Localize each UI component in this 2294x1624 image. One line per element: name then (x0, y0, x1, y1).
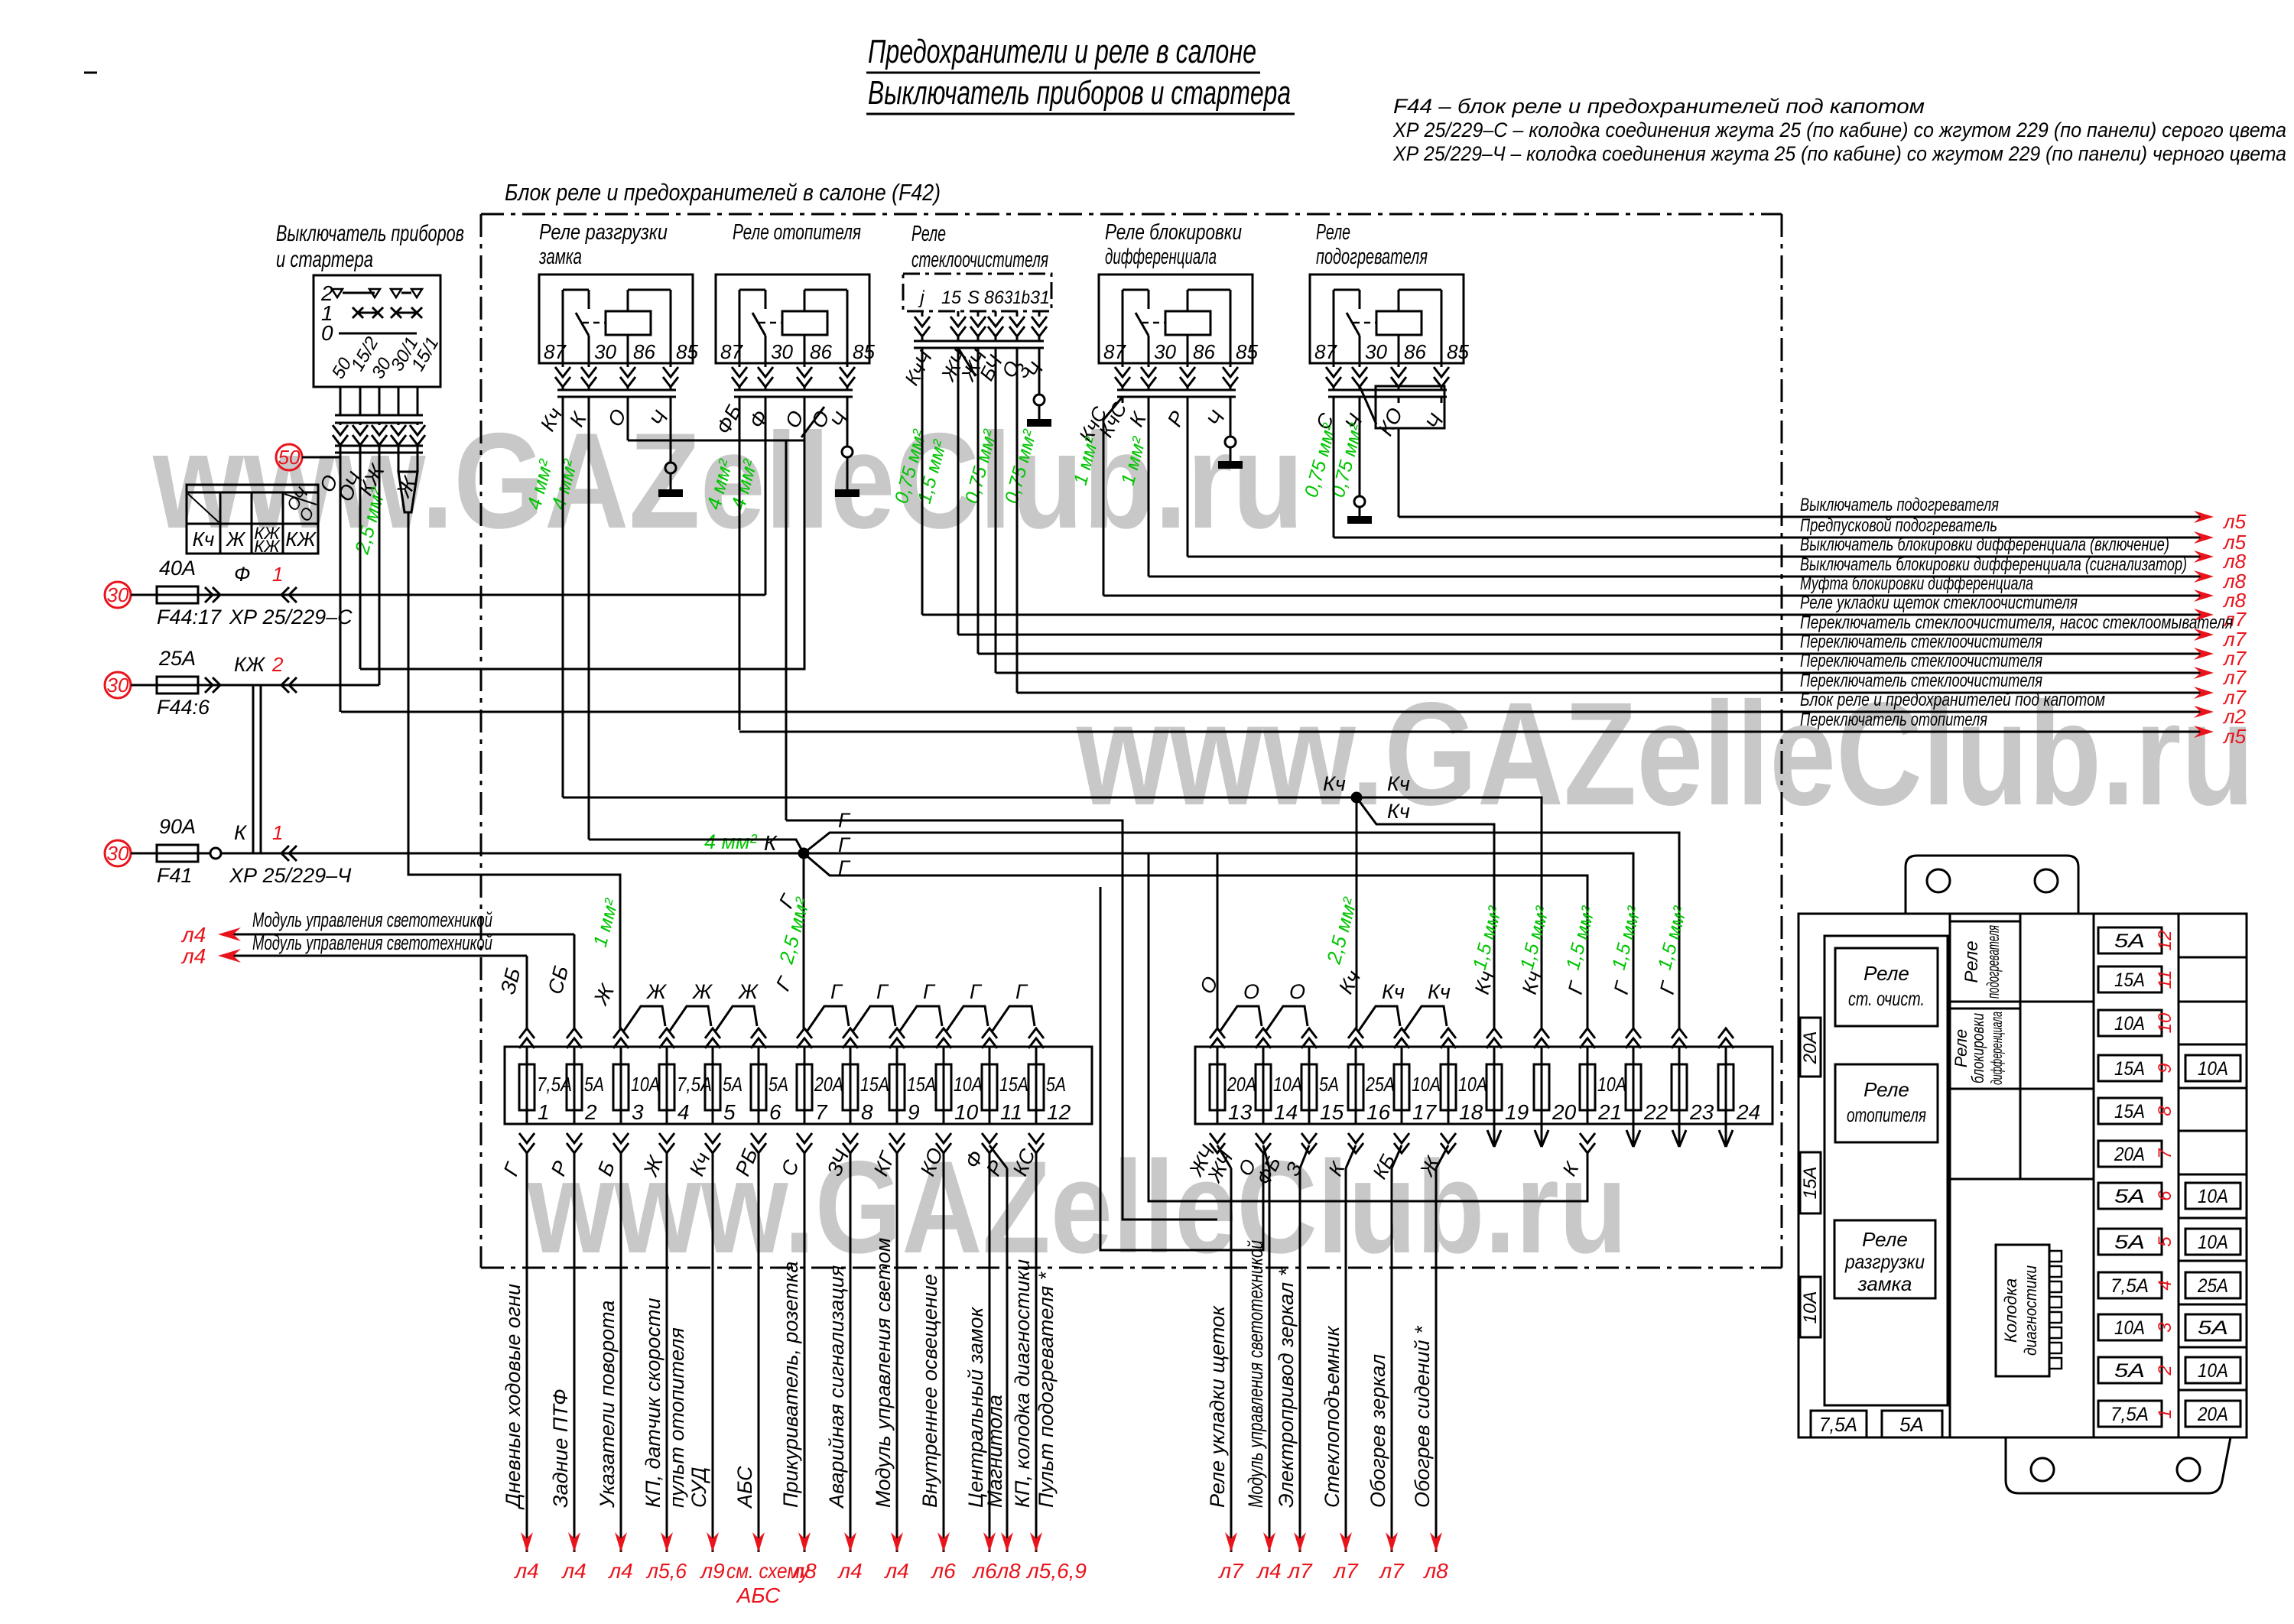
svg-text:л5: л5 (2222, 725, 2247, 748)
node 50 (red circle) (276, 444, 302, 470)
svg-text:5А: 5А (2198, 1317, 2228, 1339)
svg-text:л4: л4 (561, 1559, 586, 1583)
svg-text:Переключатель стеклоочистителя: Переключатель стеклоочистителя (1800, 671, 2042, 691)
fuse F5 (5А) (712, 1047, 714, 1124)
svg-text:10А: 10А (954, 1073, 983, 1096)
svg-text:10А: 10А (1800, 1291, 1821, 1324)
side fuse 15A (1800, 1152, 1821, 1213)
circuit drop: Модуль управления светом (896, 1153, 898, 1552)
fuse F12 (5А) (1035, 1047, 1038, 1124)
svg-text:85: 85 (1236, 340, 1258, 363)
fuse F11 (15А) (989, 1047, 991, 1124)
K2 Ф wire to 40A feed (765, 397, 767, 595)
svg-text:АБС: АБС (733, 1466, 756, 1509)
svg-text:15А: 15А (2114, 1101, 2145, 1122)
svg-text:F44 – блок реле и предохраните: F44 – блок реле и предохранителей под ка… (1393, 95, 1925, 118)
svg-text:Кч: Кч (1387, 800, 1410, 823)
svg-text:л9: л9 (699, 1559, 724, 1583)
svg-text:86: 86 (1193, 340, 1215, 363)
svg-text:Стеклоподъемник: Стеклоподъемник (1321, 1325, 1344, 1508)
fuse F2 (5А) (573, 1047, 576, 1124)
svg-text:Г: Г (838, 856, 851, 879)
physical box: outer body (1798, 914, 2247, 1437)
svg-text:87: 87 (720, 340, 743, 363)
svg-text:л7: л7 (1286, 1559, 1313, 1583)
destination line: Переключатель стеклоочистителя (1017, 692, 2201, 694)
svg-text:31: 31 (1030, 287, 1050, 308)
svg-text:30: 30 (107, 583, 129, 606)
circuit drop: Реле укладки щеток (1217, 1145, 1231, 1168)
svg-text:Внутреннее освещение: Внутреннее освещение (918, 1274, 941, 1508)
K2 pin85 Ч to ground (846, 397, 849, 447)
destination line: Блок реле и предохранителей под капотом (341, 711, 2201, 713)
svg-text:Реле блокировки: Реле блокировки (1105, 220, 1242, 245)
svg-text:1: 1 (272, 821, 283, 844)
svg-text:л6: л6 (971, 1559, 997, 1583)
svg-text:КЖ: КЖ (285, 528, 317, 551)
svg-text:Обогрев сидений *: Обогрев сидений * (1411, 1325, 1434, 1508)
svg-text:Кч: Кч (1382, 980, 1405, 1003)
svg-text:Модуль управления светом: Модуль управления светом (872, 1238, 895, 1508)
svg-text:87: 87 (544, 340, 567, 363)
supply feed 25А (F44:6) (105, 672, 131, 698)
svg-text:Кч: Кч (1323, 772, 1346, 795)
svg-text:10А: 10А (631, 1073, 660, 1096)
destination line: Выключатель блокировки дифференциала (включение) (1188, 556, 2201, 558)
wire К jog from K1 pin 30 (589, 840, 804, 853)
K4 87 КчС wire jog and down (1103, 397, 1123, 596)
svg-text:7,5А: 7,5А (2110, 1404, 2149, 1425)
wire Ф from 40A feed to heater relay (261, 594, 765, 596)
svg-text:Ж: Ж (691, 980, 713, 1003)
svg-text:Блок реле и предохранителей по: Блок реле и предохранителей под капотом (1800, 690, 2105, 710)
svg-text:10А: 10А (1597, 1073, 1626, 1096)
svg-text:5А: 5А (723, 1073, 742, 1096)
relay area rect (1824, 936, 1948, 1405)
svg-text:Модуль управления светотехнико: Модуль управления светотехникой (252, 931, 492, 954)
jumper hops 3-6 (Ж) (624, 1006, 665, 1031)
circuit drop: Электропривод зеркал * (1300, 1145, 1309, 1168)
svg-text:Переключатель стеклоочистителя: Переключатель стеклоочистителя (1800, 651, 2042, 671)
junction wires КЖ down (252, 685, 255, 853)
svg-text:Г: Г (970, 980, 983, 1003)
svg-text:Г: Г (923, 980, 936, 1003)
fuse 21 К wire down-left-up (1149, 853, 1587, 1201)
svg-text:22: 22 (1643, 1100, 1669, 1124)
fuse F15 (1308, 1047, 1311, 1124)
svg-text:Реле укладки щеток: Реле укладки щеток (1206, 1305, 1229, 1508)
K1 pin87 Кч wire down (562, 397, 564, 797)
svg-text:л4: л4 (180, 944, 206, 968)
Кч drop to fuse 16 (1356, 797, 1358, 1028)
svg-text:1: 1 (538, 1100, 550, 1124)
svg-text:Обогрев зеркал: Обогрев зеркал (1366, 1354, 1389, 1508)
side fuse 10A (1800, 1277, 1821, 1337)
box fuse #5 (5А) (2098, 1229, 2162, 1255)
svg-text:К: К (764, 831, 778, 855)
svg-text:стеклоочистителя: стеклоочистителя (911, 248, 1048, 272)
circuit drop: Модуль управления светотехникой (1263, 1145, 1269, 1168)
svg-text:9: 9 (908, 1100, 920, 1124)
ground (K2) (835, 489, 859, 497)
relay: preheater (rotated) (1950, 921, 2020, 1002)
fuse 14 О side wire (1100, 887, 1263, 1250)
svg-text:85: 85 (676, 340, 698, 363)
K2 О wires joint (804, 397, 806, 440)
svg-text:12: 12 (1047, 1100, 1071, 1124)
svg-text:F44:17: F44:17 (157, 606, 222, 628)
supply feed 40А (F44:17) (105, 582, 131, 608)
circuit drop: СУД (712, 1153, 714, 1552)
box fuse right col (5А) (2185, 1314, 2240, 1340)
svg-text:20А: 20А (814, 1073, 843, 1096)
svg-text:Ж: Ж (645, 980, 668, 1003)
box fuse #9 (15А) (2098, 1055, 2162, 1081)
svg-text:15А: 15А (907, 1073, 936, 1096)
supply feed 90А (F41) (105, 840, 131, 866)
circuit drop: Стеклоподъемник (1346, 1145, 1356, 1168)
svg-text:10А: 10А (1458, 1073, 1487, 1096)
relay: lock unloading (1834, 1220, 1935, 1298)
circuit drop: Аварийная сигнализация (850, 1153, 852, 1552)
combined О wire down (785, 440, 788, 820)
ground (K5) (1347, 516, 1372, 524)
svg-text:5А: 5А (768, 1073, 788, 1096)
circuit drop: КП, датчик скорости (666, 1153, 668, 1552)
switch wire 3 (КЖ) from 25A feed (379, 453, 381, 685)
svg-text:пульт отопителя: пульт отопителя (665, 1327, 688, 1508)
destination line: Выключатель подогревателя (1399, 516, 2201, 518)
svg-text:5А: 5А (1046, 1073, 1066, 1096)
svg-text:19: 19 (1505, 1100, 1529, 1124)
svg-text:15: 15 (1320, 1100, 1344, 1124)
circuit drop: Дневные ходовые огни (526, 1153, 528, 1552)
svg-text:15А: 15А (2114, 970, 2145, 991)
svg-text:дифференциала: дифференциала (1105, 245, 1217, 269)
svg-text:25А: 25А (2197, 1275, 2228, 1297)
svg-text:л5,6,9: л5,6,9 (1025, 1559, 1087, 1583)
circuit drop: КП, колодка диагностики (1035, 1153, 1038, 1552)
right fuse column cells (2179, 957, 2247, 959)
box fuse right col (10А) (2185, 1229, 2240, 1255)
fuse F19 (1493, 1047, 1496, 1124)
svg-text:5А: 5А (2114, 1186, 2145, 1207)
svg-text:3: 3 (2155, 1322, 2175, 1333)
svg-text:Модуль управления светотехнико: Модуль управления светотехникой (1244, 1240, 1267, 1508)
Кч line from K1 pin 87 (563, 797, 1542, 1028)
svg-text:Г: Г (830, 980, 843, 1003)
svg-text:40А: 40А (159, 557, 196, 580)
svg-text:л5: л5 (2222, 510, 2247, 533)
svg-text:15А: 15А (999, 1073, 1028, 1096)
connector table (187, 485, 318, 492)
fuse F17 (1401, 1047, 1403, 1124)
svg-text:11: 11 (2155, 970, 2175, 989)
svg-text:86: 86 (810, 340, 832, 363)
fuse F21 (1587, 1047, 1589, 1124)
fuse F8 (15А) (850, 1047, 852, 1124)
K2 ФБ wire down to heater switch line (739, 397, 741, 730)
ground (K3) (1027, 419, 1051, 427)
box fuse right col (25А) (2185, 1272, 2240, 1298)
box fuse #10 (10А) (2098, 1010, 2162, 1036)
svg-text:л7: л7 (1378, 1559, 1405, 1583)
svg-text:15А: 15А (2114, 1058, 2145, 1080)
svg-text:Выключатель блокировки диффере: Выключатель блокировки дифференциала (вк… (1800, 534, 2169, 555)
fuse F7 (20А) (804, 1047, 806, 1124)
fuse row 1 box (505, 1047, 1092, 1124)
svg-text:2: 2 (2155, 1365, 2175, 1376)
svg-text:Реле отопителя: Реле отопителя (733, 220, 861, 245)
K4 30 К wire down (1148, 397, 1150, 577)
Г fan upper (804, 833, 1679, 1028)
svg-text:К: К (234, 821, 248, 844)
svg-text:20А: 20А (2197, 1404, 2228, 1425)
svg-text:КП, колодка диагностики: КП, колодка диагностики (1011, 1259, 1034, 1508)
svg-text:л7: л7 (1332, 1559, 1359, 1583)
svg-text:Магнитола: Магнитола (983, 1395, 1006, 1508)
svg-text:87: 87 (1314, 340, 1337, 363)
svg-text:О: О (1243, 980, 1259, 1003)
destination line: Реле укладки щеток стеклоочистителя (922, 614, 2201, 616)
svg-text:12: 12 (2155, 931, 2175, 951)
svg-text:замка: замка (1857, 1272, 1912, 1295)
svg-text:Кч: Кч (1387, 772, 1410, 795)
K3 pin 31 Ч to ground (1038, 348, 1041, 395)
svg-text:Блок реле и предохранителей в: Блок реле и предохранителей в салоне (F4… (505, 179, 941, 206)
svg-text:Муфта блокировки дифференциала: Муфта блокировки дифференциала (1800, 573, 2033, 594)
relay K3 connector box (dash-dot) (903, 274, 1051, 311)
svg-text:замка: замка (538, 245, 582, 269)
switch wire 2 (ОЧ) down, right to heater relay (359, 453, 362, 669)
circuit drop: АБС (758, 1153, 760, 1552)
svg-text:30: 30 (1365, 340, 1387, 363)
svg-text:16: 16 (1366, 1100, 1391, 1124)
bottom fuses 7,5A / 5A (1811, 1411, 1867, 1437)
svg-text:л8: л8 (1422, 1559, 1448, 1583)
circuit drop: Внутреннее освещение (943, 1153, 945, 1552)
svg-text:Реле: Реле (1863, 1078, 1909, 1101)
fuse column separator (2178, 914, 2180, 1437)
svg-text:86: 86 (633, 340, 655, 363)
svg-text:Кч: Кч (1428, 980, 1451, 1003)
svg-text:разгрузки: разгрузки (1844, 1250, 1925, 1273)
circuit drop: Обогрев зеркал (1392, 1145, 1402, 1168)
svg-text:8: 8 (2155, 1106, 2175, 1116)
circuit drop: Задние ПТФ (573, 1153, 576, 1552)
svg-text:Модуль управления светотехнико: Модуль управления светотехникой (252, 908, 492, 931)
svg-text:АБС: АБС (736, 1583, 781, 1607)
svg-text:Электропривод зеркал *: Электропривод зеркал * (1275, 1267, 1298, 1508)
svg-text:7,5А: 7,5А (1819, 1413, 1857, 1436)
svg-text:20А: 20А (1227, 1073, 1256, 1096)
svg-text:10А: 10А (2114, 1317, 2145, 1339)
svg-text:Ф: Ф (234, 563, 250, 586)
relay: heater (1835, 1064, 1938, 1142)
svg-text:20А: 20А (2114, 1144, 2145, 1165)
svg-text:Предохранители и реле в са: Предохранители и реле в салоне (868, 33, 1256, 70)
svg-text:5: 5 (2155, 1236, 2175, 1247)
svg-text:6: 6 (769, 1100, 781, 1124)
svg-text:ХР 25/229–Ч – колодка соединен: ХР 25/229–Ч – колодка соединения жгута 2… (1392, 142, 2286, 165)
svg-text:Переключатель отопителя: Переключатель отопителя (1800, 710, 1987, 730)
svg-text:Дневные ходовые огни: Дневные ходовые огни (502, 1284, 525, 1510)
svg-text:24: 24 (1736, 1100, 1760, 1124)
svg-text:Указатели поворота: Указатели поворота (596, 1301, 619, 1509)
svg-text:л4: л4 (883, 1559, 908, 1583)
box fuse #7 (20А) (2098, 1141, 2162, 1167)
ground (K4) (1218, 461, 1243, 469)
wire К (4 мм²) to junction (261, 853, 804, 855)
circuit drop: Указатели поворота (620, 1153, 622, 1552)
svg-text:8: 8 (861, 1100, 873, 1124)
svg-text:30: 30 (1154, 340, 1176, 363)
svg-text:КЖ: КЖ (234, 653, 266, 676)
K5 connector outline (1376, 386, 1444, 428)
svg-text:Задние ПТФ: Задние ПТФ (549, 1389, 572, 1508)
svg-text:6: 6 (2155, 1190, 2175, 1201)
svg-text:л7: л7 (1217, 1559, 1244, 1583)
destination line: Муфта блокировки дифференциала (1103, 595, 2201, 597)
svg-text:15А: 15А (860, 1073, 889, 1096)
ground (K1) (658, 489, 683, 497)
fuse F16 (1355, 1047, 1357, 1124)
svg-text:СУД: СУД (687, 1467, 710, 1508)
svg-text:5А: 5А (1319, 1073, 1339, 1096)
svg-text:14: 14 (1274, 1100, 1298, 1124)
svg-text:15А: 15А (1800, 1167, 1821, 1200)
svg-text:Ж: Ж (225, 528, 246, 551)
svg-text:0: 0 (321, 321, 333, 345)
K4 86 Р wire down (1187, 397, 1189, 557)
svg-text:30: 30 (107, 842, 129, 865)
circuit drop: Центральный замок (989, 1153, 991, 1552)
svg-text:18: 18 (1459, 1100, 1483, 1124)
fuse F3 (10А) (620, 1047, 622, 1124)
svg-text:2: 2 (271, 653, 284, 676)
svg-text:л6: л6 (930, 1559, 956, 1583)
svg-text:Выключатель подогревателя: Выключатель подогревателя (1800, 495, 1999, 515)
svg-text:Выключатель приборов и стар: Выключатель приборов и стартера (868, 74, 1291, 112)
svg-text:Г: Г (1015, 980, 1028, 1003)
svg-text:подогревателя: подогревателя (1316, 245, 1428, 269)
svg-text:5А: 5А (2114, 1232, 2145, 1253)
switch S1 box (314, 275, 440, 387)
Г fan lower (804, 853, 1587, 1028)
wire splice taper (398, 472, 418, 512)
svg-text:Реле: Реле (1862, 1228, 1908, 1251)
wire to fuse 1 (526, 956, 528, 1028)
svg-text:1: 1 (2155, 1408, 2175, 1418)
K3 pin arrows (921, 311, 924, 317)
svg-text:л8: л8 (995, 1559, 1021, 1583)
svg-text:л5,6: л5,6 (645, 1559, 687, 1583)
svg-text:КП, датчик скорости: КП, датчик скорости (642, 1298, 664, 1508)
svg-text:10А: 10А (2114, 1013, 2145, 1034)
svg-text:О: О (1289, 980, 1305, 1003)
destination line: Выключатель блокировки дифференциала (сигнализатор) (1149, 576, 2201, 578)
svg-text:ст. очист.: ст. очист. (1848, 987, 1925, 1010)
svg-text:Переключатель стеклоочистителя: Переключатель стеклоочистителя (1800, 632, 2042, 652)
svg-text:4 мм²: 4 мм² (704, 830, 758, 853)
svg-text:10А: 10А (2198, 1186, 2228, 1207)
svg-text:86: 86 (984, 287, 1005, 308)
svg-text:ХР 25/229–С: ХР 25/229–С (229, 606, 353, 628)
svg-text:Реле: Реле (1863, 962, 1909, 985)
fuse F22 (1633, 1047, 1635, 1124)
svg-text:Выключатель блокировки диффере: Выключатель блокировки дифференциала (си… (1800, 554, 2187, 575)
relay: wiper (1835, 948, 1938, 1026)
svg-text:1: 1 (272, 563, 283, 586)
switch output wires (340, 387, 342, 415)
K5 Ч wire to ground (1359, 397, 1361, 496)
svg-text:КЖ: КЖ (254, 537, 281, 556)
relay: diff lock (rotated) (1950, 1009, 2020, 1089)
K1 pin85 Ч wire to ground (670, 397, 672, 463)
svg-text:Выключатель приборов: Выключатель приборов (276, 221, 464, 246)
fuse F13 (1217, 1047, 1219, 1124)
svg-text:10А: 10А (2198, 1058, 2228, 1080)
svg-text:Ж: Ж (737, 980, 759, 1003)
diagnostic connector comb (1996, 1245, 2049, 1376)
side fuse 20A (1800, 1018, 1821, 1077)
physical box: top mounting tab (1906, 856, 2078, 914)
destination line: Переключатель стеклоочистителя (996, 672, 2201, 674)
svg-text:диагностики: диагностики (2021, 1265, 2040, 1356)
top-left page dash (84, 72, 97, 74)
box fuse #4 (7,5А) (2098, 1272, 2162, 1298)
physical box: bottom mounting tab (2006, 1437, 2231, 1493)
fuse F9 (15А) (896, 1047, 898, 1124)
box fuse #11 (15А) (2098, 966, 2162, 992)
svg-text:7: 7 (815, 1100, 828, 1124)
fuse F20 (1541, 1047, 1543, 1124)
box fuse #8 (15А) (2098, 1098, 2162, 1124)
Ж wire down-right to fuse 3 (408, 512, 620, 1028)
svg-text:9: 9 (2155, 1063, 2175, 1073)
F42 block border (dash-dot) (481, 213, 1782, 216)
box fuse right col (10А) (2185, 1183, 2240, 1209)
fuse F10 (10А) (943, 1047, 945, 1124)
fuse F18 (1448, 1047, 1450, 1124)
Кч node (1351, 792, 1362, 803)
svg-text:86: 86 (1404, 340, 1426, 363)
svg-text:30: 30 (594, 340, 616, 363)
svg-text:л4: л4 (180, 923, 206, 947)
svg-text:20: 20 (1552, 1100, 1577, 1124)
О riser to fuse 13 (1217, 853, 1219, 1028)
svg-text:7: 7 (2155, 1148, 2175, 1159)
svg-text:подогревателя: подогревателя (1984, 925, 2003, 999)
svg-text:F44:6: F44:6 (157, 696, 210, 719)
box fuse right col (20А) (2185, 1401, 2240, 1427)
svg-text:50: 50 (278, 446, 301, 469)
svg-text:5А: 5А (1899, 1413, 1924, 1436)
svg-text:Реле: Реле (1316, 220, 1350, 245)
K5 КО wire down (1398, 428, 1400, 517)
fuse 11 output split (989, 1145, 1007, 1168)
fuse F24 (1725, 1047, 1727, 1124)
svg-text:Реле: Реле (1961, 940, 1982, 983)
box fuse #3 (10А) (2098, 1314, 2162, 1340)
box fuse #6 (5А) (2098, 1183, 2162, 1209)
svg-text:5А: 5А (584, 1073, 604, 1096)
svg-text:11: 11 (1000, 1100, 1022, 1124)
svg-text:Колодка: Колодка (2001, 1278, 2020, 1343)
svg-text:л4: л4 (513, 1559, 538, 1583)
Г drop to fuse 7 (803, 853, 805, 1028)
fuse F1 (7,5А) (526, 1047, 528, 1124)
